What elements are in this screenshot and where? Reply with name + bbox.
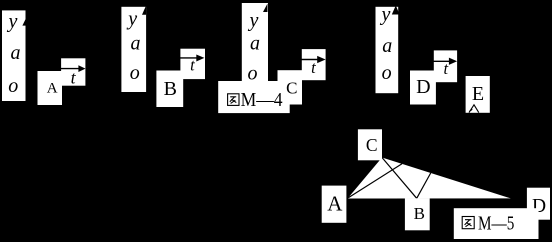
svg-text:C: C — [366, 135, 378, 155]
graph B: t-axis arrow — [178, 57, 198, 59]
svg-text:y: y — [126, 8, 137, 30]
graph C: t-axis box — [302, 49, 326, 80]
small clipped figure mark under E — [469, 105, 479, 113]
graph B: t-axis box — [180, 49, 205, 79]
svg-text:M—4: M—4 — [241, 90, 283, 111]
graph D: choice label box D — [410, 71, 436, 105]
svg-text:y: y — [380, 4, 391, 26]
figure M-5 caption box — [454, 208, 539, 239]
choice label box E — [466, 76, 490, 113]
cevian C to B — [382, 158, 417, 199]
graph B: y-axis label box — [121, 7, 146, 92]
graph C: choice label box C — [278, 70, 303, 104]
svg-text:y: y — [7, 11, 18, 33]
svg-text:C: C — [286, 79, 297, 98]
graph B: y-axis arrowhead — [142, 6, 146, 15]
svg-text:a: a — [11, 42, 21, 64]
graph C: t-axis arrow — [299, 59, 319, 61]
svg-text:a: a — [382, 35, 392, 57]
figure M-5 caption: glyph 图 — [462, 217, 474, 229]
graph A: t-axis arrow — [59, 68, 79, 70]
graph A: t-axis box — [61, 58, 85, 85]
svg-text:a: a — [131, 33, 141, 55]
svg-text:a: a — [250, 33, 260, 55]
svg-text:A: A — [327, 191, 343, 215]
cevian B to Q on CD — [417, 173, 431, 198]
svg-text:t: t — [444, 59, 449, 78]
graph D: y-axis arrowhead — [392, 6, 400, 15]
svg-text:t: t — [190, 55, 195, 74]
svg-text:B: B — [164, 78, 177, 100]
graph A: y-axis label box — [2, 10, 26, 101]
vertex label box B — [405, 198, 430, 230]
svg-text:A: A — [47, 80, 58, 96]
svg-text:o: o — [382, 62, 392, 84]
figure M-4 caption box — [218, 81, 290, 113]
vertex label box D — [527, 188, 550, 220]
graph D: t-axis box — [434, 50, 457, 82]
svg-text:E: E — [472, 83, 484, 105]
svg-text:o: o — [130, 62, 140, 84]
graph C: y-axis label box — [242, 3, 268, 82]
cevian A to P on CD — [348, 164, 402, 198]
figure M-4 caption: glyph 图 — [228, 94, 239, 106]
svg-text:t: t — [311, 58, 316, 77]
triangle ACD (figure M-5) — [348, 158, 511, 199]
svg-text:D: D — [416, 76, 430, 98]
svg-text:y: y — [248, 10, 259, 32]
graph D: t-axis arrow — [431, 60, 450, 62]
svg-text:o: o — [8, 75, 18, 97]
graph A: choice label box A — [38, 71, 63, 105]
vertex label box C — [358, 129, 382, 160]
graph D: y-axis label box — [376, 7, 399, 93]
svg-text:B: B — [414, 204, 425, 223]
vertex label box A — [322, 186, 347, 223]
graph A: y-axis arrowhead — [22, 18, 26, 26]
graph B: choice label box B — [156, 71, 183, 108]
graph C: y-axis arrowhead — [263, 4, 268, 13]
svg-text:M—5: M—5 — [478, 213, 514, 235]
